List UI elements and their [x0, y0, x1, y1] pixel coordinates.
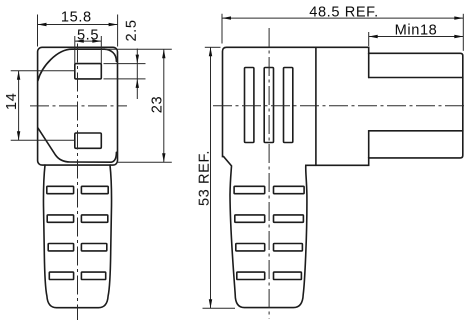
boot rib slot row3 left (side) [236, 244, 265, 251]
vent bar 3 [284, 68, 293, 143]
vent bar 1 [245, 68, 254, 143]
boot rib slot row4 left [49, 272, 73, 279]
strain relief boot (front view) [43, 165, 111, 308]
svg-text:15.8: 15.8 [61, 9, 92, 25]
dim 15.8 extension lines [37, 15, 39, 47]
label 2.5 [124, 19, 140, 41]
svg-text:Min18: Min18 [395, 22, 438, 38]
horizontal centerline [30, 105, 127, 107]
svg-text:53 REF.: 53 REF. [197, 150, 213, 206]
arrows 15.8 [38, 23, 47, 26]
dim 14 extension lines [11, 70, 75, 72]
svg-text:23: 23 [150, 96, 166, 113]
dim 23 line [163, 49, 165, 162]
dim 48.5 extension lines [221, 14, 223, 44]
dim 14 line [18, 71, 20, 141]
arrows 14 [17, 71, 20, 80]
dim 2.5 line [136, 49, 138, 100]
arrows 53 [209, 47, 212, 56]
dim 15.8 line [38, 24, 118, 26]
boot rib slot row4 right [81, 272, 105, 279]
side view body outline [223, 47, 463, 307]
vertical centerline (side) [268, 28, 270, 319]
face contour top-right curve [104, 49, 116, 61]
arrows 23 [162, 49, 165, 58]
dim 53 extension lines [205, 46, 221, 48]
boot rib slot row1 left (side) [234, 186, 265, 193]
boot rib slot row2 right (side) [274, 215, 304, 222]
svg-text:5.5: 5.5 [77, 28, 99, 44]
boot rib slot row3 right [81, 244, 106, 251]
boot rib slot row1 right (side) [274, 186, 305, 193]
arrows Min18 [369, 35, 378, 38]
boot rib slot row1 right [81, 186, 108, 193]
dim 48.5 line [222, 17, 463, 19]
plug inner line upper [369, 77, 463, 79]
boot rib slot row2 right [81, 215, 107, 222]
dim 23 extension lines [106, 48, 172, 50]
svg-text:48.5 REF.: 48.5 REF. [309, 4, 378, 20]
center lines, left view [30, 44, 127, 321]
center lines, right view [213, 28, 467, 319]
dim 53 line [210, 47, 212, 308]
dim Min18 extension line [368, 32, 370, 46]
contact slot lower [75, 133, 102, 148]
plug inner line lower [369, 130, 463, 132]
svg-text:2.5: 2.5 [124, 19, 140, 41]
mating face seam line [315, 47, 317, 165]
boot rib slot row4 right (side) [274, 272, 302, 279]
boot rib slot row4 left (side) [237, 272, 265, 279]
face contour top-left curve [38, 49, 104, 80]
label 23 [150, 96, 166, 113]
dim 2.5 extension lines [104, 63, 146, 65]
dim 5.5 extension lines [74, 36, 76, 64]
boot rib slot row2 left (side) [235, 215, 265, 222]
boot rib slot row2 left [47, 215, 73, 222]
arrows 48.5 [222, 16, 231, 19]
label 53 REF. [197, 150, 213, 206]
horizontal centerline (side) [213, 105, 467, 107]
boot rib slot row3 right (side) [274, 244, 303, 251]
dim 5.5 line [75, 40, 102, 42]
vent bar 2 [264, 68, 273, 143]
connector body outline (front view) [38, 47, 118, 165]
boot rib slot row3 left [48, 244, 73, 251]
contact slot upper [75, 64, 102, 79]
svg-text:14: 14 [4, 93, 20, 110]
plug step edge lower [368, 131, 370, 158]
plug step edge upper [368, 53, 370, 77]
face contour bottom edge with corner curves [38, 128, 117, 162]
arrows 2.5 (outside) [136, 55, 139, 64]
label 14 [4, 93, 20, 110]
vertical centerline [77, 44, 79, 321]
arrows 5.5 [75, 39, 84, 42]
boot rib slot row1 left [47, 186, 74, 193]
dim Min18 line [369, 36, 464, 38]
